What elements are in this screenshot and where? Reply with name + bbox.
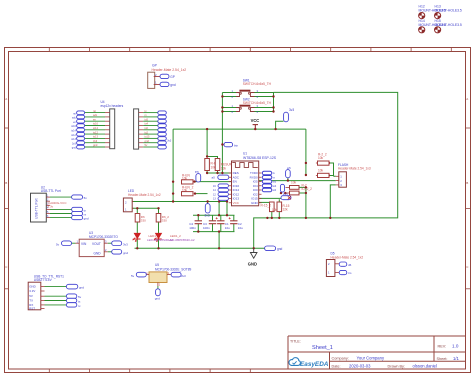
header U4 left wires — [85, 113, 105, 147]
wire SW1 right pins — [255, 92, 274, 94]
capacitor C3 — [203, 221, 216, 230]
wire SW2 left pins — [222, 107, 236, 109]
header FLASH (Header-Mate 2.54_1x3) — [336, 163, 371, 187]
svg-text:GND: GND — [94, 252, 102, 256]
svg-text:MOUNT-HOLE3.5: MOUNT-HOLE3.5 — [435, 9, 462, 13]
resistor R-2_2 (flash pullup 1) — [316, 153, 329, 166]
svg-text:gnd: gnd — [123, 251, 128, 255]
junction dots on gnd rail y218 — [266, 186, 331, 219]
svg-text:5v: 5v — [56, 243, 60, 247]
netports io16/io14/io12/io13 (left of U1) — [213, 184, 229, 201]
wire EN row — [194, 181, 231, 183]
EasyEDA logo — [289, 358, 329, 368]
svg-text:Header-Mate 2.54_1x3: Header-Mate 2.54_1x3 — [338, 167, 371, 171]
wire R6_2 to LED2 — [158, 222, 160, 233]
resistor R pullup1 (left of U1) — [205, 159, 221, 171]
svg-text:Header-Mate 2.54_1x2: Header-Mate 2.54_1x2 — [152, 68, 187, 72]
netport 3v3 (vertical, below 3v3 row) — [205, 204, 211, 218]
chip U1 right pin names — [250, 171, 259, 205]
svg-text:io14: io14 — [93, 126, 98, 130]
capacitor C1 — [216, 217, 230, 230]
netport a0 — [212, 175, 229, 179]
wire btn column to RES row — [221, 145, 223, 174]
U5 wires — [136, 275, 171, 289]
wire R-EN_2 row — [194, 193, 208, 195]
svg-text:3.3V: 3.3V — [29, 289, 35, 293]
netport 3v3 (top, near switches) — [284, 108, 295, 122]
svg-text:io4: io4 — [273, 185, 277, 188]
svg-text:1.0: 1.0 — [452, 344, 459, 349]
wire R-EN lower link — [172, 182, 174, 194]
wire flash pullup1 right — [329, 163, 334, 176]
wire gnd rail bottom — [135, 247, 265, 249]
svg-text:LED-0805/8S30-A2: LED-0805/8S30-A2 — [169, 238, 195, 242]
svg-text:10k: 10k — [318, 168, 324, 172]
svg-text:Header-Mate 2.54_1x2: Header-Mate 2.54_1x2 — [331, 255, 364, 259]
svg-text:io13: io13 — [93, 135, 98, 139]
svg-text:1/1: 1/1 — [453, 356, 459, 361]
svg-text:330: 330 — [141, 218, 146, 222]
svg-text:USB2TTL5V: USB2TTL5V — [34, 278, 53, 282]
svg-text:330: 330 — [162, 218, 167, 222]
regulator U5 (highlighted) — [146, 263, 192, 286]
VCC power flag — [251, 118, 260, 129]
svg-text:gnd: gnd — [79, 286, 84, 290]
wire LED1 to gnd rail — [136, 239, 138, 248]
wire pullup jog — [207, 157, 217, 159]
mount hole H15 — [435, 19, 462, 33]
svg-text:io13: io13 — [71, 138, 76, 141]
svg-text:3v3: 3v3 — [181, 274, 186, 278]
svg-text:EasyEDA: EasyEDA — [300, 361, 329, 368]
svg-text:GP: GP — [170, 75, 175, 79]
svg-text:olsson.daniel: olsson.daniel — [413, 363, 438, 368]
resistor flash pullup 2 — [316, 168, 329, 177]
chip U1 left pin names — [233, 171, 240, 205]
wire SW1 left pins — [222, 92, 236, 94]
svg-text:gnd: gnd — [277, 247, 283, 251]
wire chip gnd pin to R15 — [259, 201, 272, 203]
svg-text:io0: io0 — [273, 189, 277, 192]
svg-text:Company:: Company: — [332, 357, 349, 361]
svg-text:io12: io12 — [71, 134, 76, 137]
svg-text:GP: GP — [152, 64, 158, 68]
svg-text:SWITCH-6x6x5_TH: SWITCH-6x6x5_TH — [243, 82, 272, 86]
svg-text:3v3: 3v3 — [72, 142, 77, 145]
USB_TO_TTL_RST1 wires — [45, 287, 67, 305]
title block — [288, 336, 466, 369]
USB_TO_TTL_RST1 netports — [66, 284, 84, 308]
D5 netports — [339, 262, 352, 275]
header GP (Header-Mate 2.54_1x2) — [148, 64, 187, 89]
svg-text:REV:: REV: — [438, 345, 447, 349]
svg-text:Header-Mate 2.54_1x2: Header-Mate 2.54_1x2 — [128, 193, 161, 197]
svg-text:USB-TTL Port: USB-TTL Port — [41, 189, 61, 193]
svg-text:10k: 10k — [291, 180, 297, 184]
switch SW2 (SWITCH-6x6x5_TH) — [232, 98, 272, 114]
svg-text:io16: io16 — [93, 122, 98, 126]
wire cap bottom rail — [193, 231, 235, 233]
wire R15 bottoms to gnd rail — [272, 212, 280, 218]
wire cap leads C3 — [212, 215, 214, 231]
junction dots on 3v3 row and caps — [172, 200, 255, 249]
wire pullup R to RES row — [207, 171, 231, 174]
svg-text:VOUT: VOUT — [92, 242, 101, 246]
regulator U3 — [76, 231, 119, 256]
chip U1 right pins — [259, 173, 262, 203]
junction dots at LEDs — [136, 207, 160, 249]
svg-text:io15: io15 — [145, 135, 150, 139]
resistor R-EN — [182, 174, 194, 184]
mount hole H12 — [419, 5, 446, 19]
resistor R6_2 330 — [156, 214, 169, 223]
netport io15 — [281, 193, 291, 200]
wire LED header pin1 row — [132, 207, 159, 209]
switch SW1 (SWITCH-6x6x5_TH) — [232, 79, 272, 99]
svg-text:WT8266-S8 ESP-12S: WT8266-S8 ESP-12S — [243, 156, 277, 160]
mount hole H14 — [419, 19, 446, 33]
wire pullup R2 to RES row — [217, 170, 219, 173]
netport btn — [224, 142, 239, 147]
svg-text:Sheet_1: Sheet_1 — [312, 345, 333, 351]
svg-text:5v: 5v — [84, 196, 88, 200]
svg-text:IO_2_2: IO_2_2 — [302, 187, 313, 191]
mount hole H13 — [435, 5, 462, 19]
U3 wires — [72, 243, 112, 252]
wire cap cluster drop to gnd rail — [218, 232, 220, 249]
header U4 right wires — [143, 113, 158, 147]
svg-text:Sheet:: Sheet: — [437, 357, 448, 361]
svg-text:VCC: VCC — [233, 201, 240, 205]
svg-text:TX: TX — [29, 299, 33, 303]
header U4 right net labels — [145, 109, 150, 147]
wire cap top rail — [193, 214, 235, 216]
svg-text:A: A — [5, 97, 7, 101]
svg-text:GND: GND — [251, 201, 259, 205]
svg-text:3v3: 3v3 — [123, 243, 128, 247]
svg-text:GND: GND — [29, 285, 35, 289]
svg-text:adc: adc — [93, 113, 98, 117]
svg-text:gnd: gnd — [155, 296, 160, 300]
svg-text:GND: GND — [248, 261, 257, 266]
resistor io2 series — [286, 191, 300, 195]
resistor R-2 (io0 series) — [286, 180, 313, 191]
svg-text:gnd: gnd — [84, 217, 89, 221]
LED LED1_2 — [154, 233, 162, 241]
header D5 (Header-Mate 2.54_1x2) — [326, 252, 363, 277]
junction dots on RES/EN rows — [172, 155, 224, 195]
svg-text:btn: btn — [234, 143, 239, 147]
svg-text:gnd: gnd — [72, 147, 77, 150]
netport en (vertical) — [195, 170, 201, 182]
netport d5 (vertical, above flash wire) — [286, 166, 292, 178]
svg-text:io16: io16 — [71, 125, 76, 128]
header U4 esp12x label — [101, 100, 124, 108]
frame row letters — [5, 97, 469, 269]
frame reference ticks left — [5, 128, 471, 289]
svg-text:3v3: 3v3 — [289, 108, 294, 112]
wire flash pullup2 to pin1 — [329, 175, 336, 178]
svg-text:Drawn By:: Drawn By: — [388, 364, 406, 368]
svg-text:10u: 10u — [225, 226, 230, 230]
wire 3v3 row (LED header pin2 net) — [132, 201, 227, 203]
resistor R pullup2 (btn net) — [215, 159, 234, 171]
svg-text:io4: io4 — [145, 122, 149, 126]
wire switches right column — [273, 92, 275, 111]
wire switches left column — [221, 93, 223, 145]
wire LED branch drops — [137, 208, 158, 213]
svg-text:VCC: VCC — [251, 118, 260, 123]
wire d5 netport down — [287, 178, 289, 181]
connector USB_TO_TTL_RST1 — [28, 275, 64, 311]
wire cap leads C2 — [233, 215, 235, 231]
svg-text:Date:: Date: — [332, 364, 341, 368]
svg-text:io5: io5 — [145, 117, 149, 121]
wire io15 to R15_2 — [259, 198, 281, 202]
wire rail drop to pullup R — [206, 129, 208, 157]
svg-text:5v: 5v — [131, 274, 135, 278]
wire big gnd loop — [254, 92, 398, 248]
wire io0 resistor right drop — [299, 187, 306, 218]
wire SW2 right pins — [255, 107, 274, 109]
wire VCC drop to flash pullups — [305, 129, 307, 175]
wire 3v3 netport to rail — [276, 121, 284, 129]
chip U1 label — [243, 152, 277, 160]
U3 netports — [56, 241, 128, 255]
wire R-EN column to 3v3 row — [172, 194, 174, 202]
svg-text:tm: tm — [348, 271, 352, 275]
header U4 right netports — [158, 111, 172, 149]
svg-text:Your Company: Your Company — [357, 356, 385, 361]
svg-text:2020-03-03: 2020-03-03 — [349, 363, 371, 368]
svg-text:RST: RST — [29, 306, 35, 310]
svg-text:gnd: gnd — [93, 143, 98, 147]
svg-text:gnd: gnd — [170, 83, 176, 87]
title block texts — [290, 340, 459, 369]
junction dots at flash pullups — [280, 162, 330, 195]
svg-text:d6: d6 — [348, 263, 352, 267]
wire VCC rail — [173, 128, 306, 130]
wire cap leads C4 — [197, 215, 199, 231]
header U4 left netports — [71, 111, 84, 150]
chip U1 left pins — [229, 173, 232, 203]
junction dots on switch columns — [221, 95, 274, 145]
svg-text:MCP1700-3302ETO: MCP1700-3302ETO — [89, 235, 118, 239]
svg-text:13k: 13k — [221, 167, 227, 171]
wire 3v3 vert oval stub — [207, 202, 209, 204]
frame reference ticks bottom — [49, 369, 250, 373]
resistor R-EN_2 — [182, 186, 194, 196]
connector U2 USB TTL Port — [31, 186, 68, 222]
wire VCC rail drop to R-EN column — [172, 129, 174, 182]
header U4 right strip — [134, 109, 144, 149]
svg-text:A: A — [466, 97, 468, 101]
svg-text:R-15_2: R-15_2 — [261, 204, 272, 208]
svg-text:100n: 100n — [203, 226, 210, 230]
resistor R6 330 — [135, 214, 146, 223]
resistor R-15_2 — [277, 202, 290, 212]
svg-text:VIN: VIN — [81, 242, 87, 246]
frame reference ticks top — [49, 48, 451, 52]
wire chip IO5 to flash pin2 — [259, 180, 336, 182]
svg-text:10u: 10u — [238, 226, 243, 230]
capacitor C2 — [229, 217, 243, 230]
netport io2 (vertical) — [280, 184, 284, 192]
svg-text:3v3: 3v3 — [93, 139, 98, 143]
U2 wires to netports — [50, 197, 72, 218]
resistor R-15 (gnd) — [261, 202, 278, 212]
svg-text:USB-TTL Port: USB-TTL Port — [35, 198, 39, 219]
svg-text:B: B — [5, 181, 7, 185]
wire R6 to LED1 — [136, 222, 138, 233]
LED labels (overlapping) — [147, 234, 195, 242]
svg-text:gnd: gnd — [145, 139, 150, 143]
U2 netports — [72, 195, 89, 221]
svg-text:io14: io14 — [71, 130, 76, 133]
svg-text:TITLE:: TITLE: — [290, 340, 301, 344]
svg-text:3.3v: 3.3v — [48, 205, 54, 209]
svg-text:10k: 10k — [318, 156, 324, 160]
svg-text:io5: io5 — [273, 181, 277, 184]
svg-text:rst: rst — [73, 112, 76, 115]
svg-text:12k: 12k — [283, 208, 289, 212]
svg-text:a0: a0 — [212, 176, 216, 180]
svg-text:3v3: 3v3 — [205, 214, 210, 218]
wire flash pin3 to gnd rail — [330, 185, 336, 218]
svg-text:MCP1700-3302E_SOT89: MCP1700-3302E_SOT89 — [155, 267, 192, 271]
wire cap top rail drops — [219, 202, 227, 216]
svg-text:esp12x headers: esp12x headers — [101, 104, 124, 108]
netports right of U1 (tx rx io4 io0 io2) — [262, 171, 276, 192]
svg-text:io0: io0 — [145, 126, 149, 130]
svg-text:100n: 100n — [189, 226, 196, 230]
svg-text:3v3: 3v3 — [167, 139, 172, 142]
svg-text:5v: 5v — [78, 295, 82, 299]
LED LED1 — [133, 233, 141, 241]
svg-text:io12: io12 — [93, 130, 98, 134]
header U4 left net labels — [93, 109, 98, 147]
svg-text:rst: rst — [93, 109, 96, 113]
header LED (Header-Mate 2.54_1x2) — [123, 189, 160, 212]
GND symbol — [248, 248, 257, 266]
U5 netports — [131, 272, 186, 300]
header U4 left strip — [105, 109, 115, 149]
svg-text:B: B — [466, 181, 468, 185]
junction dots on VCC rail — [206, 128, 277, 130]
wire io2 resistor right — [299, 192, 306, 194]
capacitor C4 — [189, 221, 202, 230]
netport gnd (right of gnd rail) — [265, 246, 283, 251]
chip U1 body — [232, 161, 259, 206]
wire cap leads C1 — [220, 215, 222, 231]
svg-text:io2: io2 — [145, 130, 149, 134]
wire LED2 to gnd rail — [158, 239, 160, 248]
